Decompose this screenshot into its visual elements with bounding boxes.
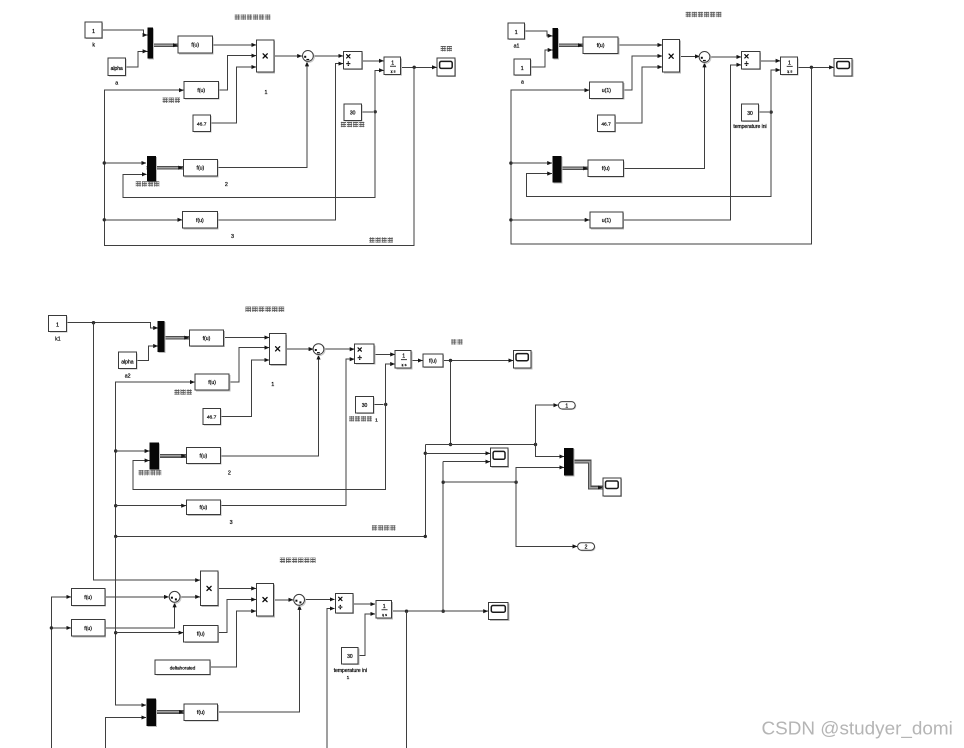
svg-text:1: 1 (56, 322, 59, 328)
svg-text:1: 1 (515, 30, 518, 36)
svg-text:f(u): f(u) (197, 632, 205, 638)
svg-text:a: a (115, 81, 118, 87)
svg-text:f(u): f(u) (197, 88, 205, 94)
svg-text:30: 30 (350, 111, 356, 117)
svg-text:1: 1 (521, 66, 524, 72)
svg-text:1: 1 (347, 675, 350, 681)
svg-text:46.7: 46.7 (601, 122, 611, 128)
svg-text:f(u): f(u) (84, 595, 92, 601)
svg-text:46.7: 46.7 (207, 415, 217, 421)
svg-text:f(u): f(u) (597, 43, 605, 49)
svg-text:alpha: alpha (111, 66, 123, 72)
svg-text:3: 3 (231, 234, 234, 240)
svg-text:f(u): f(u) (602, 166, 610, 172)
svg-text:2: 2 (225, 182, 228, 188)
svg-text:1: 1 (402, 354, 405, 360)
svg-text:1: 1 (383, 604, 386, 610)
svg-text:f(u): f(u) (197, 166, 205, 172)
svg-text:1: 1 (265, 90, 268, 96)
svg-text:f(u): f(u) (200, 453, 208, 459)
svg-text:2: 2 (228, 471, 231, 477)
svg-text:f(u): f(u) (84, 626, 92, 632)
svg-text:30: 30 (747, 111, 753, 117)
svg-text:u(1): u(1) (602, 88, 611, 94)
svg-text:CSDN @studyer_domi: CSDN @studyer_domi (762, 719, 953, 740)
svg-text:a1: a1 (514, 44, 520, 50)
svg-text:a2: a2 (125, 374, 131, 380)
svg-text:alpha: alpha (121, 359, 133, 365)
svg-text:3: 3 (230, 520, 233, 526)
svg-text:1: 1 (565, 403, 568, 409)
svg-text:30: 30 (347, 654, 353, 660)
svg-text:u(1): u(1) (602, 218, 611, 224)
svg-text:1: 1 (375, 418, 378, 424)
svg-text:1: 1 (271, 382, 274, 388)
svg-text:2: 2 (585, 545, 588, 551)
svg-text:k1: k1 (55, 336, 61, 342)
svg-text:f(u): f(u) (208, 380, 216, 386)
svg-text:1: 1 (788, 60, 791, 66)
svg-text:k: k (92, 43, 95, 49)
svg-text:f(u): f(u) (200, 505, 208, 511)
svg-text:f(u): f(u) (429, 358, 437, 364)
svg-text:deltahorated: deltahorated (170, 666, 196, 671)
svg-text:46.7: 46.7 (197, 122, 207, 128)
svg-text:f(u): f(u) (196, 218, 204, 224)
svg-text:1: 1 (92, 29, 95, 35)
svg-text:f(u): f(u) (191, 43, 199, 49)
svg-text:temperature ini: temperature ini (334, 668, 367, 674)
svg-text:f(u): f(u) (197, 710, 205, 716)
svg-text:a: a (521, 80, 524, 86)
svg-text:temperature ini: temperature ini (733, 124, 766, 130)
svg-text:1: 1 (391, 60, 394, 66)
svg-text:30: 30 (362, 403, 368, 409)
svg-text:f(u): f(u) (203, 336, 211, 342)
